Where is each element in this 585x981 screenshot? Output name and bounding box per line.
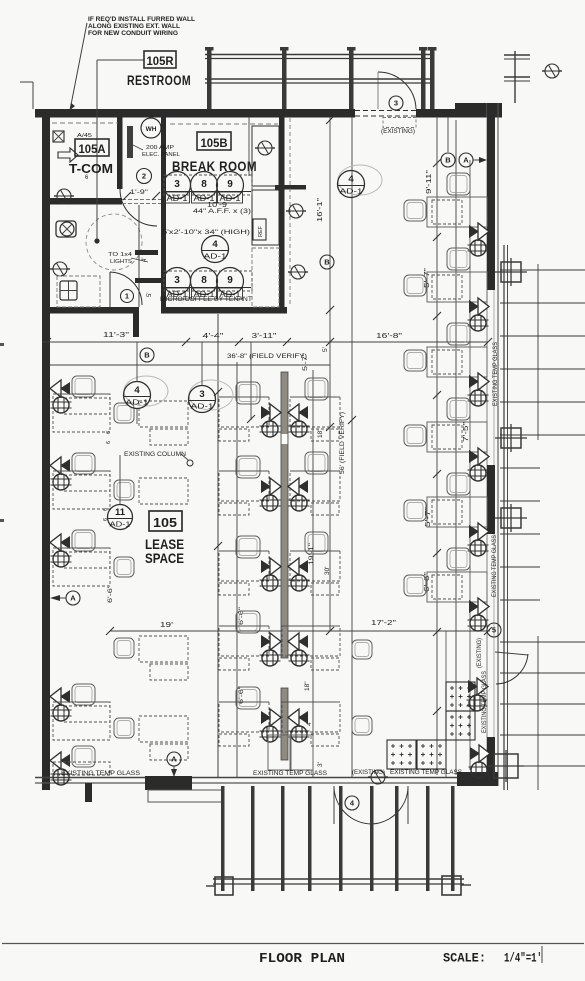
svg-text:5'x2'-10"x 34" (HIGH): 5'x2'-10"x 34" (HIGH): [162, 229, 250, 236]
svg-text:2: 2: [142, 172, 146, 181]
svg-text:AD-1: AD-1: [126, 398, 149, 407]
svg-text:8: 8: [201, 179, 207, 190]
svg-text:105B: 105B: [201, 136, 228, 150]
svg-text:5: 5: [492, 626, 496, 635]
svg-text:EXISTING COLUMN: EXISTING COLUMN: [124, 451, 186, 458]
svg-text:105: 105: [153, 515, 177, 530]
svg-text:18": 18": [304, 681, 311, 691]
svg-text:AD-1: AD-1: [340, 187, 363, 196]
svg-text:ELEC. PANEL: ELEC. PANEL: [142, 152, 180, 158]
svg-text:FOR NEW CONDUIT WIRING: FOR NEW CONDUIT WIRING: [88, 30, 178, 37]
svg-text:EXISTING TEMP GLASS: EXISTING TEMP GLASS: [253, 770, 327, 777]
svg-text:3: 3: [394, 99, 398, 108]
svg-text:4: 4: [348, 174, 354, 185]
svg-text:6'-6": 6'-6": [107, 584, 114, 603]
svg-text:RESTROOM: RESTROOM: [127, 73, 191, 88]
svg-text:WH: WH: [146, 126, 157, 133]
svg-text:BREAK ROOM: BREAK ROOM: [172, 159, 257, 174]
svg-text:8: 8: [201, 275, 207, 286]
svg-text:6: 6: [106, 441, 112, 444]
svg-text:4: 4: [212, 239, 218, 250]
svg-text:3'-11": 3'-11": [252, 331, 278, 340]
svg-text:3: 3: [174, 275, 180, 286]
svg-text:5': 5': [322, 347, 329, 352]
svg-text:105R: 105R: [147, 54, 174, 68]
svg-text:30': 30': [324, 567, 331, 575]
svg-text:1'-9": 1'-9": [130, 189, 148, 196]
svg-text:AD-1: AD-1: [191, 402, 214, 411]
svg-text:(EXISTING): (EXISTING): [477, 638, 483, 668]
svg-text:11: 11: [115, 507, 126, 518]
svg-text:A/45: A/45: [77, 133, 92, 139]
svg-text:B: B: [144, 351, 150, 360]
svg-text:4: 4: [134, 385, 140, 396]
svg-text:EXISTING TEMP GLASS: EXISTING TEMP GLASS: [482, 671, 488, 733]
svg-text:6: 6: [103, 508, 109, 511]
svg-text:1/4"=1': 1/4"=1': [504, 951, 542, 966]
svg-text:TO 1x4: TO 1x4: [108, 252, 133, 258]
svg-text:ALONG EXISTING EXT. WALL: ALONG EXISTING EXT. WALL: [88, 23, 180, 30]
svg-text:7'-5": 7'-5": [463, 421, 470, 442]
svg-text:11'-3": 11'-3": [103, 330, 130, 339]
svg-text:9'-11": 9'-11": [426, 169, 433, 194]
svg-text:3: 3: [174, 179, 180, 190]
svg-text:200 AMP: 200 AMP: [146, 145, 174, 151]
svg-text:105A: 105A: [79, 142, 106, 156]
svg-text:9: 9: [227, 275, 233, 286]
svg-text:B: B: [445, 156, 451, 165]
svg-text:IF REQ'D INSTALL FURRED WALL: IF REQ'D INSTALL FURRED WALL: [88, 16, 195, 23]
svg-text:T-COM: T-COM: [69, 161, 113, 176]
svg-text:SPACE: SPACE: [145, 550, 184, 566]
svg-text:5': 5': [147, 293, 153, 297]
svg-text:3': 3': [317, 762, 324, 767]
svg-text:B: B: [324, 258, 330, 267]
svg-text:A: A: [70, 594, 76, 603]
svg-text:56' (FIELD VERIFY): 56' (FIELD VERIFY): [339, 412, 346, 474]
svg-text:4'-4": 4'-4": [203, 331, 225, 340]
svg-text:44" A.F.F. x (3): 44" A.F.F. x (3): [193, 208, 251, 215]
svg-text:AD-1: AD-1: [110, 520, 131, 529]
svg-text:MICRO/COFFEE BY TENANT: MICRO/COFFEE BY TENANT: [160, 296, 252, 303]
svg-text:6: 6: [106, 431, 112, 434]
svg-text:AD-1: AD-1: [204, 252, 227, 261]
svg-text:A: A: [171, 755, 177, 764]
svg-text:FLOOR PLAN: FLOOR PLAN: [259, 952, 345, 967]
svg-text:16'-8": 16'-8": [376, 331, 403, 340]
svg-text:9: 9: [227, 179, 233, 190]
svg-text:17'-2": 17'-2": [371, 620, 397, 627]
svg-text:A: A: [463, 156, 469, 165]
svg-text:19': 19': [160, 622, 173, 629]
svg-text:1: 1: [125, 292, 129, 301]
svg-text:LIGHTS: LIGHTS: [110, 259, 132, 265]
svg-text:3: 3: [199, 389, 204, 400]
svg-text:SCALE:: SCALE:: [443, 951, 486, 966]
svg-text:EXISTING TEMP GLASS: EXISTING TEMP GLASS: [61, 770, 140, 777]
svg-text:EXISTING TEMP GLASS: EXISTING TEMP GLASS: [390, 769, 462, 776]
svg-text:REF: REF: [258, 225, 264, 237]
svg-text:(EXISTING): (EXISTING): [381, 129, 415, 135]
svg-text:36'-8" (FIELD VERIFY): 36'-8" (FIELD VERIFY): [227, 353, 307, 360]
svg-text:18': 18': [317, 430, 324, 438]
svg-text:EXISTING TEMP GLASS: EXISTING TEMP GLASS: [493, 342, 499, 406]
svg-text:EXISTING TEMP GLASS: EXISTING TEMP GLASS: [492, 535, 498, 597]
svg-text:16'-1": 16'-1": [317, 197, 324, 222]
